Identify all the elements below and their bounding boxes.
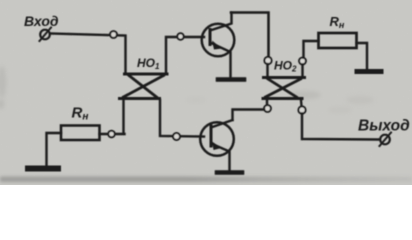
contact NO2 cross — [268, 79, 297, 97]
ground bar Q1 — [218, 77, 244, 82]
wire Q2 collector to NO2 — [233, 110, 265, 121]
wire Rn2 to NO1 junction — [100, 133, 125, 135]
terminal input (circle with slash) — [40, 30, 50, 40]
terminal output (circle with slash) — [380, 135, 390, 145]
bottom scan shadow band — [0, 177, 412, 183]
node circle NO2 top-left — [264, 57, 271, 64]
node circle n3 — [108, 131, 115, 138]
transistor Q1 circle — [202, 24, 235, 57]
wire NO1 bottom-right to Q2 base — [160, 100, 204, 137]
wire input to HO1 top-left — [50, 34, 126, 74]
ground bar Q2 — [217, 170, 242, 175]
ground bar top-right — [357, 69, 381, 74]
resistor Rn2 box — [61, 126, 100, 141]
resistor Rn1 box — [319, 33, 357, 48]
ground bar left — [28, 166, 58, 172]
wire Rn1 right lead — [357, 43, 368, 69]
wire below — [266, 64, 268, 77]
Q1 emitter with arrow — [210, 43, 231, 78]
Q2 collector — [211, 120, 233, 128]
contact NO1 cross — [129, 76, 157, 98]
contact NO2 top bar — [264, 76, 305, 79]
node circle n2 — [177, 33, 183, 39]
wire NO2 bottom-right — [300, 100, 303, 106]
node circle n4 — [173, 133, 180, 140]
scan smudge left edge — [0, 66, 6, 98]
svg-text:Вход: Вход — [24, 13, 59, 29]
node circle NO2 bottom-right — [298, 106, 305, 113]
wire below NO2 top-right — [301, 65, 303, 77]
top rail wire — [231, 13, 269, 58]
wire NO1 bottom-left down — [122, 100, 124, 134]
wire Rn2 left lead — [47, 133, 62, 166]
contact NO1 top bar — [125, 73, 168, 76]
contact NO2 bottom bar — [263, 97, 302, 100]
wire NO2 bottom-left — [266, 100, 268, 105]
contact NO1 bottom bar — [120, 97, 160, 100]
wire HO1 top-right to Q1 base — [166, 37, 204, 74]
Q1 base bar — [209, 30, 212, 45]
Q1 collector — [210, 13, 232, 31]
Q2 emitter with arrow — [211, 144, 230, 171]
node circle NO2 bottom-left — [264, 105, 271, 112]
node circle NO2 top-right — [299, 58, 306, 65]
faint bleed-through smudges — [289, 91, 321, 99]
Q2 base bar — [210, 126, 213, 146]
svg-text:Выход: Выход — [358, 118, 410, 135]
wire Rn1 left lead — [304, 41, 319, 58]
background paper — [0, 0, 412, 185]
wire NO2 to output — [302, 114, 379, 140]
node circle n1 — [110, 31, 117, 38]
transistor Q2 circle — [200, 122, 234, 156]
